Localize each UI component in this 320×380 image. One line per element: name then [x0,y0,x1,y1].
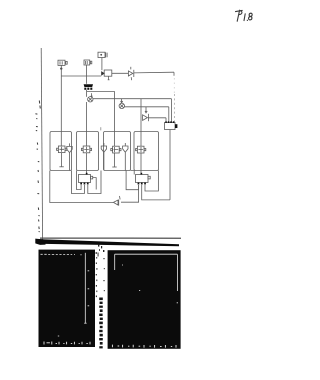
wire combiner down and left [169,130,171,200]
register G1 (box with pins) [79,173,93,185]
baseline rule above photo block [40,237,181,239]
white annotations inside left plate [41,253,90,336]
element S3 (box symbol in R2) [81,146,91,153]
drop from M2 line into combiner [168,107,170,123]
loop wires below G2 right [145,171,158,192]
element S1 (box symbol in R1) [57,146,67,153]
wire block C to amp D [101,58,103,71]
feed column x141 down to filter row [140,99,142,146]
transformer T1 (dense black symbol) [84,84,93,90]
loop from G1 nub right [93,178,97,190]
arrow symbol on return wire [113,196,120,206]
wire S2 down [69,153,71,171]
block C (oscillator with dot) [98,52,107,57]
right photo plate [108,250,181,349]
detector E2 (arrow with bar) [143,114,149,121]
drop from M1 line into combiner [171,99,173,123]
combiner U5 (box with black pins) [165,121,178,129]
wire S3 down to G1 [86,153,88,175]
wire junction to right column [87,90,115,92]
wire D output to detector E [112,72,128,74]
long return wire with arrow [50,171,113,203]
wire E to right drop [134,71,174,74]
white scale ticks bottom of right plate [112,345,176,348]
mixer M1 [88,93,93,102]
margin ruled line [41,48,42,241]
wire S1 down with terminal tick [61,153,63,167]
stray mark above R3 [100,127,102,130]
tap down to detector E2 [145,107,147,113]
bus wire from node A to amp D input [61,75,101,77]
film column text between plates [99,298,103,349]
wire block B down to transformer [86,65,88,84]
loop wires below G2 left [126,171,139,190]
filter box R2 [77,132,99,171]
register G2 (box with pins) [136,173,151,185]
loop wires below G1 left [72,171,85,194]
filter box R4 [134,132,159,171]
filter box R3 [104,132,131,171]
photo block bottom [35,239,180,349]
hook down at right end [173,72,175,76]
loop wires below G1 right [88,171,101,194]
detector E (arrow with bar) [128,67,133,80]
arrow tap into mixer M2 [121,99,123,103]
wire S5 down with terminal tick [114,153,116,167]
wire block A down to bus [60,65,62,76]
faint dashed drop to combiner U5 [174,94,176,122]
left photo plate [39,250,96,347]
node dot below block A [60,68,62,70]
header strip [38,239,179,246]
wire mixer M1 output [93,98,172,100]
wire mixer M1 down to S3 [86,102,88,146]
wire chain1 down (from bus through R1) [60,76,62,146]
wire mixer M2 output [125,106,169,108]
white annotations inside right plate [115,254,178,303]
element S7 (box symbol in R4) [136,146,146,153]
mixer M2 [119,103,124,108]
figure label Fig 1.8 handwriting [236,10,253,21]
margin speck marks [35,101,40,232]
block B (second input unit) [84,60,92,65]
element S5 (box symbol in R3) [111,146,121,153]
block A (input unit top-left) [58,60,67,65]
element S2 (pentagon symbol) [67,143,72,152]
film column specks [96,252,105,297]
filter box R1 [50,132,72,171]
loop wires below G1 inner [77,171,82,190]
element S6 (pentagon symbol) [123,143,128,152]
amplifier D [101,70,112,80]
element S4 (pentagon symbol) [101,143,106,152]
wire S4 down [103,152,105,170]
wire S6 down [124,152,126,170]
white scale ticks bottom of left plate [44,342,90,345]
wire transformer down [86,90,88,97]
wire G2 center pin down to return line [142,185,170,200]
wire E2 output [148,117,166,119]
wire S7 down to G2 [140,153,142,175]
vertical feed column x114.5 [114,91,116,146]
film gap top smudges [98,245,105,257]
corner blob [35,239,45,245]
